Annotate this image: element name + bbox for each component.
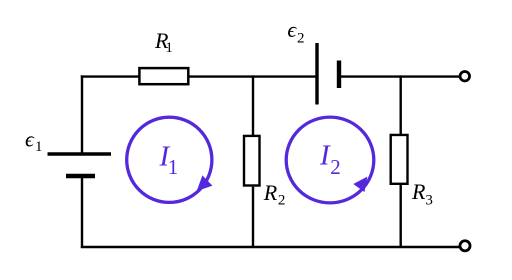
mesh current loop I2 arrowhead (counterclockwise) [353, 177, 367, 192]
wire bottom (left node to bottom terminal) [81, 246, 461, 248]
wire right vertical lower (R3 down to bottom wire) [400, 185, 402, 248]
svg-text:2: 2 [297, 31, 305, 47]
mesh current loop I2 circle [286, 117, 374, 203]
wire left vertical lower (battery e1 down to bottom wire) [81, 176, 83, 248]
label R1 [154, 28, 173, 56]
svg-text:R: R [263, 180, 278, 205]
mesh current loop I1 circle [127, 117, 212, 202]
wire top-left segment (left node to R1) [81, 75, 140, 77]
battery e2 short plate [337, 61, 341, 89]
resistor R3 [391, 135, 408, 184]
label e2 [287, 17, 304, 47]
label R3 [411, 179, 433, 209]
svg-text:R: R [411, 179, 426, 204]
battery e1 long plate [48, 152, 112, 155]
label R2 [263, 180, 286, 209]
label I1 [159, 141, 179, 180]
terminal bottom-right [460, 241, 470, 251]
wire left vertical upper (top wire down to battery e1) [81, 75, 83, 154]
wire middle vertical upper (top wire down to R2) [252, 75, 254, 136]
battery e2 long plate [315, 43, 318, 105]
label I2 [319, 140, 341, 179]
resistor R1 [139, 68, 188, 84]
svg-text:ϵ: ϵ [287, 17, 297, 42]
battery e1 short plate [66, 174, 95, 178]
svg-text:3: 3 [425, 193, 433, 209]
wire top-middle segment (R1 to battery e2, through node at R2 branch) [190, 75, 318, 77]
svg-text:1: 1 [168, 155, 179, 179]
mesh current loop I1 arrowhead (clockwise) [197, 175, 213, 191]
terminal top-right [460, 71, 470, 81]
svg-text:1: 1 [165, 40, 173, 56]
wire top-right segment (battery e2 to top terminal) [339, 75, 460, 77]
wire middle vertical lower (R2 down to bottom wire) [252, 187, 254, 248]
resistor R2 [244, 136, 260, 186]
svg-text:ϵ: ϵ [25, 127, 35, 152]
label e1 [25, 127, 43, 155]
wire right vertical upper (top wire down to R3) [400, 75, 402, 135]
svg-text:2: 2 [278, 193, 286, 209]
svg-text:1: 1 [35, 139, 43, 155]
svg-text:2: 2 [330, 155, 341, 179]
svg-text:I: I [319, 140, 331, 172]
